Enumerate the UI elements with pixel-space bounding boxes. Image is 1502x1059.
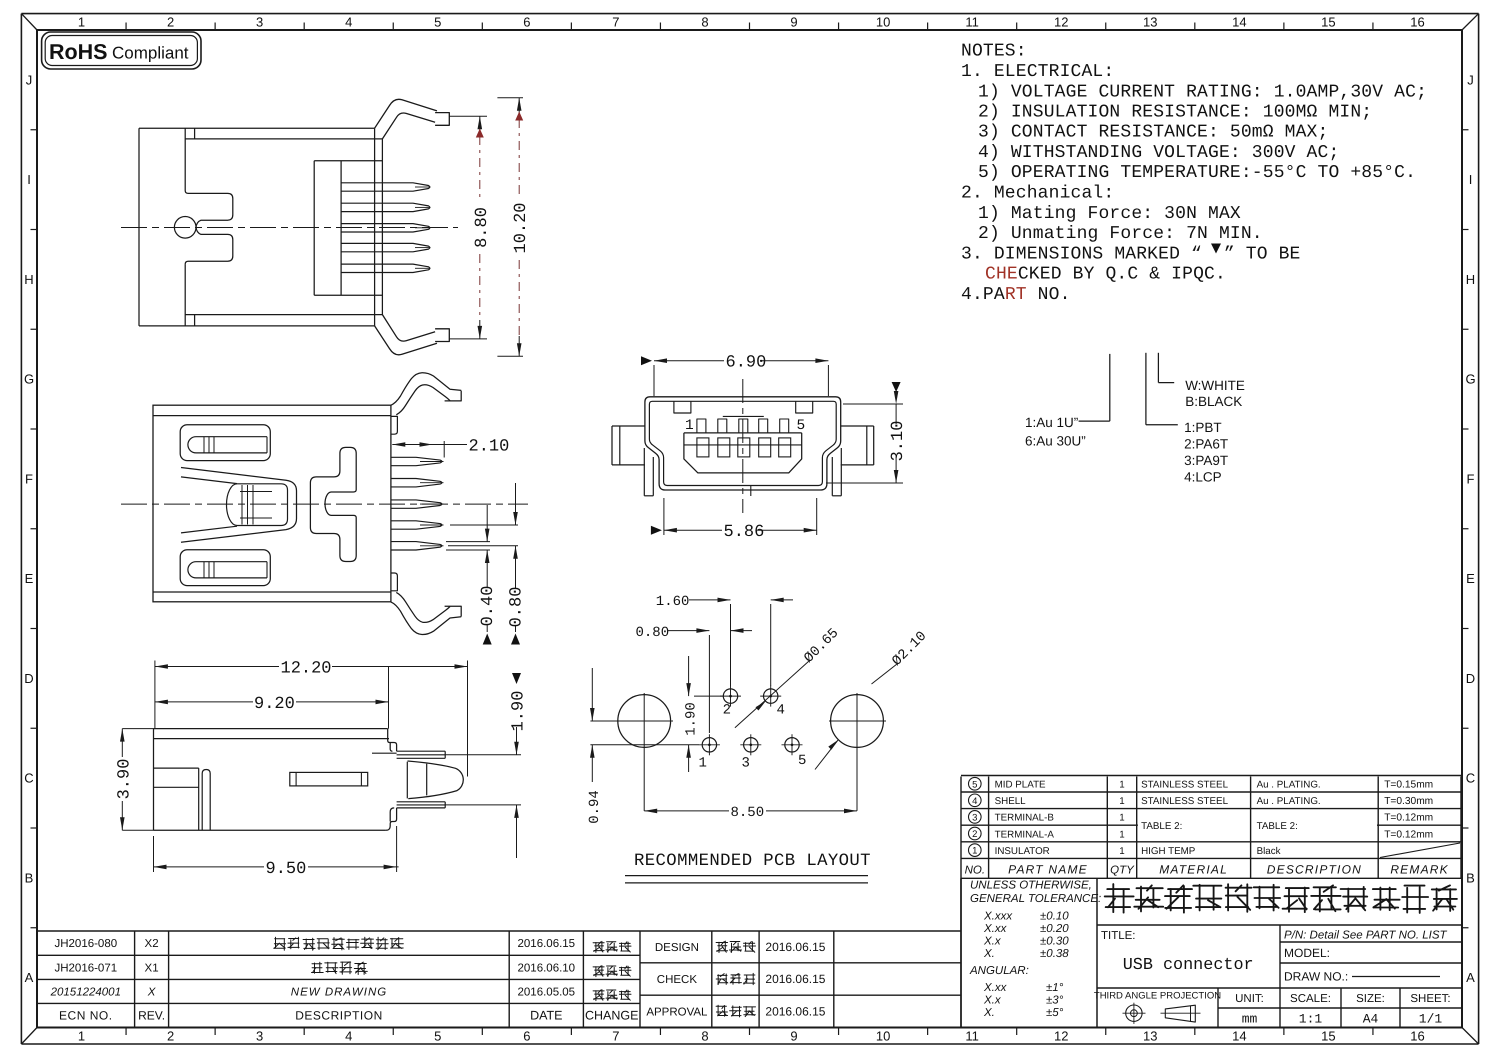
view4 centerline — [742, 379, 744, 513]
svg-text:C: C — [24, 771, 33, 786]
svg-text:16: 16 — [1410, 1029, 1424, 1044]
svg-text:RoHS: RoHS — [49, 40, 108, 64]
svg-text:NOTES:: NOTES: — [961, 42, 1027, 62]
svg-text:REV.: REV. — [138, 1008, 165, 1022]
svg-text:D: D — [1466, 671, 1475, 686]
svg-text:X.xx: X.xx — [983, 923, 1008, 935]
svg-text:X.x: X.x — [983, 936, 1002, 948]
BOM row 5 — [969, 777, 1434, 790]
svg-text:A: A — [25, 970, 34, 985]
view4 top notches — [674, 401, 813, 413]
view4 lower contact 2 — [718, 438, 730, 457]
svg-text:CHANGE: CHANGE — [585, 1008, 638, 1022]
svg-text:TITLE:: TITLE: — [1101, 930, 1136, 942]
svg-text:6.90: 6.90 — [726, 354, 767, 373]
title cell — [1101, 930, 1254, 975]
BOM remark diagonal — [1380, 843, 1460, 858]
svg-text:8.50: 8.50 — [731, 805, 765, 821]
view4 lower contact 4 — [759, 438, 771, 457]
svg-text:RECOMMENDED PCB LAYOUT: RECOMMENDED PCB LAYOUT — [634, 852, 871, 871]
svg-text:0.40: 0.40 — [479, 586, 498, 627]
view4 shell outer contour — [645, 397, 841, 490]
svg-text:P/N: Detail See PART NO. LIST: P/N: Detail See PART NO. LIST — [1284, 930, 1448, 942]
svg-text:USB connector: USB connector — [1123, 956, 1254, 975]
part number legend tree — [1025, 353, 1245, 485]
view2 body outline — [153, 405, 391, 602]
revision row 1 — [54, 937, 631, 952]
approval check row — [657, 972, 826, 986]
leader diameter 0.65 — [735, 626, 842, 728]
svg-text:H: H — [24, 272, 33, 287]
svg-text:8: 8 — [701, 15, 708, 30]
svg-text:±0.30: ±0.30 — [1040, 936, 1069, 948]
dimension 0.94 pcb — [587, 668, 699, 824]
svg-text:8.80: 8.80 — [473, 207, 492, 248]
svg-text:3) CONTACT RESISTANCE: 50mΩ MA: 3) CONTACT RESISTANCE: 50mΩ MAX; — [978, 123, 1328, 143]
view2 top-right side tab — [391, 416, 398, 434]
dimension 8.80 vertical — [449, 116, 492, 339]
svg-text:UNIT:: UNIT: — [1235, 993, 1264, 1005]
svg-text:9: 9 — [790, 1029, 797, 1044]
svg-text:Black: Black — [1257, 846, 1281, 857]
dimension 0.40 pin thickness — [446, 505, 518, 645]
svg-text:4) WITHSTANDING VOLTAGE: 300V: 4) WITHSTANDING VOLTAGE: 300V AC; — [978, 143, 1339, 163]
svg-text:SIZE:: SIZE: — [1356, 993, 1385, 1005]
view2 center contact S-bracket — [310, 447, 356, 561]
svg-text:14: 14 — [1232, 1029, 1246, 1044]
view4 lower contact 1 — [697, 438, 709, 457]
svg-text:CHECK: CHECK — [657, 974, 698, 986]
view4 lower contact 3 — [738, 438, 750, 457]
approval approval row — [646, 1005, 825, 1019]
svg-text:2.10: 2.10 — [469, 438, 510, 457]
revision header row — [59, 1008, 638, 1022]
svg-text:3:PA9T: 3:PA9T — [1184, 453, 1228, 468]
svg-text:T=0.30mm: T=0.30mm — [1384, 796, 1433, 807]
svg-text:X: X — [147, 986, 157, 998]
svg-text:±1°: ±1° — [1046, 982, 1064, 994]
svg-text:I: I — [1469, 172, 1473, 187]
revision row 2 — [54, 962, 631, 977]
svg-text:1: 1 — [1119, 813, 1124, 824]
svg-text:1.90: 1.90 — [684, 702, 700, 736]
svg-text:1) Mating Force: 30N MAX: 1) Mating Force: 30N MAX — [978, 204, 1241, 224]
svg-text:9.20: 9.20 — [254, 695, 295, 714]
pcb pad hole 3 — [740, 734, 761, 771]
svg-text:JH2016-071: JH2016-071 — [54, 962, 117, 974]
view1 terminal pin 2 — [341, 203, 430, 211]
svg-text:MATERIAL: MATERIAL — [1159, 863, 1228, 877]
svg-text:0.80: 0.80 — [508, 587, 527, 628]
pcb pad hole 2 — [720, 686, 741, 719]
svg-text:4: 4 — [345, 15, 352, 30]
svg-text:9: 9 — [790, 15, 797, 30]
svg-text:3: 3 — [742, 756, 750, 772]
svg-text:2: 2 — [972, 829, 977, 840]
svg-text:PART NAME: PART NAME — [1008, 863, 1088, 877]
svg-text:APPROVAL: APPROVAL — [646, 1006, 708, 1018]
svg-text:13: 13 — [1143, 15, 1157, 30]
svg-text:1: 1 — [685, 418, 694, 434]
svg-text:3: 3 — [256, 1029, 263, 1044]
svg-text:3. DIMENSIONS MARKED “ ” TO B: 3. DIMENSIONS MARKED “ ” TO BE — [961, 244, 1301, 264]
view2 terminal pin 4 — [391, 521, 442, 529]
pcb mounting hole right — [829, 693, 886, 811]
view1 top mounting leg — [375, 99, 450, 139]
svg-text:Compliant: Compliant — [112, 44, 189, 63]
company name (Chinese) — [1105, 884, 1134, 913]
svg-text:NO.: NO. — [965, 865, 985, 877]
svg-text:0.80: 0.80 — [636, 625, 670, 641]
svg-text:Au . PLATING.: Au . PLATING. — [1257, 796, 1321, 807]
svg-text:1/1: 1/1 — [1419, 1012, 1443, 1027]
view1 shell plan view body — [139, 128, 382, 326]
svg-text:1: 1 — [1119, 780, 1124, 791]
view4 right side skirt — [832, 448, 841, 496]
view2 terminal pin 3 — [391, 500, 442, 508]
tolerance note — [969, 880, 1101, 1020]
svg-text:0.94: 0.94 — [587, 790, 603, 824]
svg-text:ANGULAR:: ANGULAR: — [969, 965, 1029, 977]
BOM row 2 — [969, 827, 1434, 840]
svg-text:5) OPERATING TEMPERATURE:-55°C: 5) OPERATING TEMPERATURE:-55°C TO +85°C. — [978, 163, 1416, 183]
BOM row 3 — [969, 811, 1434, 824]
svg-text:9.50: 9.50 — [266, 860, 307, 879]
svg-text:12: 12 — [1054, 1029, 1068, 1044]
dimension 9.20 — [155, 667, 389, 729]
svg-text:REMARK: REMARK — [1390, 863, 1449, 877]
pcb mounting hole left — [590, 693, 673, 811]
svg-text:X.: X. — [983, 1007, 995, 1019]
view4 bottom seam tick — [750, 486, 752, 497]
svg-text:MODEL:: MODEL: — [1284, 946, 1330, 960]
svg-text:DRAW NO.:: DRAW NO.: — [1284, 970, 1348, 984]
svg-text:13: 13 — [1143, 1029, 1157, 1044]
view4 left side skirt — [644, 448, 653, 496]
svg-text:4: 4 — [345, 1029, 352, 1044]
svg-text:4: 4 — [972, 796, 977, 807]
BOM row 1 — [969, 844, 1281, 857]
approval design row — [655, 940, 826, 954]
view3 retention hook — [407, 761, 463, 799]
svg-text:1:PBT: 1:PBT — [1184, 420, 1222, 435]
svg-text:F: F — [1467, 471, 1475, 486]
svg-text:2016.06.15: 2016.06.15 — [765, 1005, 825, 1019]
revision table grid — [37, 931, 640, 1028]
view4 upper contact 3 — [739, 419, 748, 433]
view2 top-right solder leg — [391, 373, 462, 415]
dimension 9.50 — [154, 826, 399, 879]
svg-text:SHEET:: SHEET: — [1410, 993, 1450, 1005]
svg-text:2) INSULATION RESISTANCE: 100M: 2) INSULATION RESISTANCE: 100MΩ MIN; — [978, 103, 1372, 123]
svg-text:20151224001: 20151224001 — [50, 986, 121, 998]
svg-text:5: 5 — [434, 15, 441, 30]
svg-text:2016.06.15: 2016.06.15 — [765, 972, 825, 986]
svg-text:15: 15 — [1321, 15, 1335, 30]
svg-text:J: J — [26, 72, 33, 87]
svg-text:DESIGN: DESIGN — [655, 942, 699, 954]
svg-text:5: 5 — [434, 1029, 441, 1044]
svg-text:±5°: ±5° — [1046, 1007, 1064, 1019]
svg-text:2016.06.15: 2016.06.15 — [518, 938, 576, 950]
svg-text:5: 5 — [798, 753, 806, 769]
third angle projection cell — [1094, 991, 1221, 1024]
dimension 3.10 — [826, 382, 908, 483]
svg-text:SHELL: SHELL — [995, 796, 1027, 807]
svg-text:MID PLATE: MID PLATE — [995, 780, 1046, 791]
view4 upper contact 2 — [718, 419, 727, 433]
svg-text:H: H — [1466, 272, 1475, 287]
dimension 0.80 pin pitch — [508, 483, 527, 645]
svg-text:SCALE:: SCALE: — [1290, 993, 1331, 1005]
svg-text:DESCRIPTION: DESCRIPTION — [295, 1008, 383, 1022]
dimension 0.80 pcb — [636, 625, 753, 733]
svg-text:3.90: 3.90 — [115, 759, 134, 800]
svg-text:4:LCP: 4:LCP — [1184, 469, 1222, 484]
svg-text:2:PA6T: 2:PA6T — [1184, 436, 1228, 451]
svg-text:1: 1 — [78, 15, 85, 30]
dimension 1.60 pcb — [656, 594, 793, 686]
svg-text:F: F — [25, 471, 33, 486]
view4 upper contact 1 — [697, 419, 706, 433]
draw no cell — [1284, 970, 1440, 984]
view1 centerline — [121, 227, 458, 229]
view4 upper contact 4 — [759, 419, 768, 433]
BOM row 4 — [969, 794, 1434, 807]
svg-text:1: 1 — [78, 1029, 85, 1044]
dimension 6.90 — [641, 354, 828, 396]
svg-text:±0.38: ±0.38 — [1040, 948, 1069, 960]
svg-text:4.PART NO.: 4.PART NO. — [961, 285, 1071, 305]
svg-text:STAINLESS STEEL: STAINLESS STEEL — [1141, 796, 1228, 807]
svg-text:16: 16 — [1410, 15, 1424, 30]
svg-text:3: 3 — [256, 15, 263, 30]
view4 right board tab — [841, 426, 874, 465]
view3 bottom solder rail — [397, 802, 446, 808]
view3 bottom-left detail — [154, 768, 199, 830]
svg-text:X.: X. — [983, 948, 995, 960]
svg-text:X1: X1 — [145, 962, 159, 974]
svg-text:10.20: 10.20 — [512, 202, 531, 253]
view1 terminal pin 1 — [341, 183, 430, 191]
svg-text:6: 6 — [523, 1029, 530, 1044]
svg-text:T=0.12mm: T=0.12mm — [1384, 829, 1433, 840]
BOM header row — [965, 863, 1449, 877]
view4 shell inner contour — [649, 401, 836, 485]
pcb pad hole 4 — [760, 686, 785, 719]
svg-text:Au . PLATING.: Au . PLATING. — [1257, 780, 1321, 791]
view2 centerline — [121, 503, 528, 505]
svg-text:1) VOLTAGE CURRENT RATING: 1.0: 1) VOLTAGE CURRENT RATING: 1.0AMP,30V AC… — [978, 82, 1427, 102]
view3 top solder rail — [397, 751, 446, 758]
svg-text:4: 4 — [777, 703, 785, 719]
svg-text:11: 11 — [965, 15, 979, 30]
svg-text:DATE: DATE — [530, 1008, 562, 1022]
svg-text:5: 5 — [972, 779, 977, 790]
svg-text:1: 1 — [699, 756, 707, 772]
svg-text:2: 2 — [167, 1029, 174, 1044]
dimension 3.90 — [115, 729, 153, 831]
svg-text:10: 10 — [876, 1029, 890, 1044]
svg-text:1:Au 1U”: 1:Au 1U” — [1025, 415, 1078, 430]
dimension 5.86 — [651, 498, 817, 542]
svg-text:TERMINAL-B: TERMINAL-B — [995, 813, 1055, 824]
pcb pad hole 1 — [699, 734, 720, 771]
BOM table verticals — [961, 777, 1461, 879]
dimension 1.90 side — [445, 673, 528, 858]
svg-text:GENERAL TOLERANCE:: GENERAL TOLERANCE: — [970, 893, 1101, 905]
svg-text:1: 1 — [1119, 846, 1124, 857]
svg-text:T=0.15mm: T=0.15mm — [1384, 780, 1433, 791]
svg-text:STAINLESS STEEL: STAINLESS STEEL — [1141, 780, 1228, 791]
svg-text:CHECKED BY Q.C & IPQC.: CHECKED BY Q.C & IPQC. — [985, 265, 1226, 285]
view1 terminal pin 5 — [341, 264, 430, 272]
svg-text:UNLESS OTHERWISE,: UNLESS OTHERWISE, — [970, 880, 1092, 892]
svg-text:8: 8 — [701, 1029, 708, 1044]
approval block grid — [640, 878, 961, 1027]
view2 terminal pin 2 — [391, 479, 442, 487]
pcb layout caption — [625, 852, 871, 883]
view2 terminal pin 1 — [391, 457, 442, 465]
dimension 12.20 — [155, 660, 468, 777]
svg-text:ECN NO.: ECN NO. — [59, 1008, 113, 1022]
svg-text:X.xx: X.xx — [983, 982, 1008, 994]
svg-text:X.xxx: X.xxx — [983, 911, 1013, 923]
svg-text:B: B — [1466, 870, 1475, 885]
svg-text:G: G — [24, 372, 34, 387]
dimension 8.50 pcb — [644, 805, 857, 821]
title block grid — [961, 878, 1461, 1027]
view1 terminal pin 4 — [341, 243, 430, 251]
svg-text:B:BLACK: B:BLACK — [1185, 394, 1242, 409]
svg-text:A4: A4 — [1363, 1012, 1379, 1027]
view1 flange hole — [174, 217, 196, 239]
svg-text:2. Mechanical:: 2. Mechanical: — [961, 184, 1114, 204]
svg-text:3.10: 3.10 — [889, 421, 908, 462]
svg-text:1: 1 — [1119, 829, 1124, 840]
svg-text:6:Au 30U”: 6:Au 30U” — [1025, 434, 1086, 449]
svg-text:A: A — [1466, 970, 1475, 985]
svg-text:DESCRIPTION: DESCRIPTION — [1267, 863, 1362, 877]
svg-text:T=0.12mm: T=0.12mm — [1384, 813, 1433, 824]
BOM table grid — [961, 776, 1461, 879]
svg-text:2016.05.05: 2016.05.05 — [518, 986, 576, 998]
svg-text:1: 1 — [1119, 796, 1124, 807]
svg-text:X.x: X.x — [983, 995, 1002, 1007]
svg-text:15: 15 — [1321, 1029, 1335, 1044]
svg-text:mm: mm — [1242, 1012, 1258, 1027]
dimension 10.20 vertical — [497, 98, 531, 356]
svg-text:E: E — [1466, 571, 1475, 586]
svg-text:1. ELECTRICAL:: 1. ELECTRICAL: — [961, 62, 1114, 82]
svg-text:1.60: 1.60 — [656, 594, 690, 610]
svg-text:±0.20: ±0.20 — [1040, 923, 1069, 935]
svg-text:D: D — [24, 671, 33, 686]
view3 center slot — [290, 772, 368, 786]
view2 terminal pin 5 — [391, 542, 442, 550]
svg-text:±0.10: ±0.10 — [1040, 911, 1069, 923]
view4 tongue and contacts — [684, 416, 802, 473]
view1 insulator housing — [314, 161, 382, 296]
svg-text:C: C — [1466, 771, 1475, 786]
notes text block — [961, 42, 1427, 305]
QC check triangle in note 3 — [1211, 244, 1221, 254]
svg-text:12: 12 — [1054, 15, 1068, 30]
svg-text:2: 2 — [167, 15, 174, 30]
view3 body outline — [154, 729, 397, 831]
svg-text:2) Unmating Force: 7N MIN.: 2) Unmating Force: 7N MIN. — [978, 224, 1263, 244]
view4 left board tab — [612, 426, 645, 465]
revision row 3 — [50, 986, 631, 1000]
svg-text:10: 10 — [876, 15, 890, 30]
svg-text:E: E — [25, 571, 34, 586]
dimension 1.90 pcb — [684, 656, 724, 772]
svg-text:G: G — [1465, 372, 1475, 387]
view4 lower contact 5 — [779, 438, 791, 457]
svg-text:TABLE 2:: TABLE 2: — [1141, 821, 1182, 832]
svg-text:7: 7 — [612, 1029, 619, 1044]
svg-text:±3°: ±3° — [1046, 995, 1064, 1007]
svg-text:THIRD ANGLE PROJECTION: THIRD ANGLE PROJECTION — [1094, 991, 1221, 1002]
svg-text:7: 7 — [612, 15, 619, 30]
svg-text:2016.06.10: 2016.06.10 — [518, 962, 576, 974]
view3 hold-down tab — [202, 770, 210, 831]
view2 bottom-right solder leg — [391, 592, 462, 634]
view2 bottom-right side tab — [391, 573, 398, 591]
svg-text:14: 14 — [1232, 15, 1246, 30]
svg-text:HIGH TEMP: HIGH TEMP — [1141, 846, 1196, 857]
svg-text:I: I — [27, 172, 31, 187]
svg-text:12.20: 12.20 — [281, 660, 332, 679]
svg-text:1: 1 — [972, 846, 977, 857]
svg-text:1:1: 1:1 — [1299, 1012, 1323, 1027]
view2 contact spring — [181, 468, 297, 543]
svg-text:2: 2 — [723, 703, 731, 719]
svg-text:INSULATOR: INSULATOR — [995, 846, 1050, 857]
svg-text:3: 3 — [972, 812, 977, 823]
view2 bottom slot — [180, 550, 270, 586]
leader diameter 2.10 — [815, 629, 930, 770]
view2 top slot — [180, 425, 270, 461]
view1 bottom mounting leg — [375, 315, 450, 355]
svg-text:1.90: 1.90 — [510, 691, 529, 732]
svg-text:B: B — [25, 870, 34, 885]
svg-text:W:WHITE: W:WHITE — [1185, 378, 1245, 393]
dimension 2.10 pin length — [392, 438, 509, 458]
svg-text:J: J — [1467, 72, 1474, 87]
svg-text:X2: X2 — [145, 938, 159, 950]
view4 upper contact 5 — [780, 419, 789, 433]
RoHS Compliant badge — [42, 32, 201, 69]
unit scale size sheet cells — [1235, 993, 1451, 1027]
pcb pad hole 5 — [782, 734, 807, 769]
svg-text:5.86: 5.86 — [724, 523, 765, 542]
svg-text:NEW DRAWING: NEW DRAWING — [291, 986, 387, 998]
view1 mounting flange with hole — [185, 191, 233, 265]
svg-text:QTY: QTY — [1110, 865, 1135, 877]
svg-text:TERMINAL-A: TERMINAL-A — [995, 829, 1055, 840]
view4 pin labels — [685, 418, 805, 434]
svg-text:6: 6 — [523, 15, 530, 30]
svg-text:11: 11 — [965, 1029, 979, 1044]
view1 terminal pin 3 — [341, 224, 430, 232]
svg-text:JH2016-080: JH2016-080 — [54, 938, 117, 950]
svg-text:2016.06.15: 2016.06.15 — [765, 940, 825, 954]
BOM merged TABLE 2 cells — [1141, 821, 1298, 832]
svg-text:5: 5 — [797, 418, 806, 434]
svg-text:TABLE 2:: TABLE 2: — [1257, 821, 1298, 832]
